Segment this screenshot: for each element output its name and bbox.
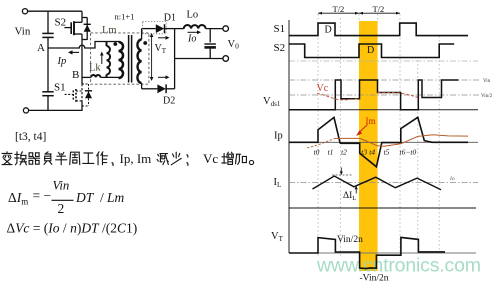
S1 switch leg [81, 77, 83, 84]
output inductor Lo [184, 25, 206, 29]
output terminal bottom [223, 56, 229, 62]
waveform Ip [289, 117, 468, 167]
secondary dot [143, 41, 147, 45]
T/2 span arrows [318, 12, 359, 14]
svg-text:Vin/2: Vin/2 [481, 94, 493, 99]
svg-text:S1: S1 [274, 23, 286, 35]
svg-text:S2: S2 [55, 17, 67, 29]
svg-text:Vin: Vin [483, 79, 491, 84]
wire top rail [28, 10, 82, 12]
Vin/2 level dashdot [289, 94, 481, 96]
yellow highlight band t3-t4 [359, 21, 378, 271]
wire Lo to output terminal [206, 28, 223, 30]
svg-text:t6−t0: t6−t0 [400, 148, 417, 157]
S1 body diode branch (dashed) [82, 83, 89, 85]
wire D1 cathode to node [165, 28, 175, 30]
svg-text:/: / [100, 190, 104, 205]
capacitor C1 (upper bridge cap) [42, 32, 53, 34]
wire node to Lo [175, 28, 184, 30]
wire D2 cathode to node [166, 88, 175, 90]
magnetizing current Im curve (orange) [307, 138, 335, 148]
node A wire with hop over switch leg [48, 42, 119, 49]
svg-text:Io: Io [187, 33, 196, 44]
diode D1 [156, 24, 164, 33]
svg-text:Vc: Vc [317, 83, 329, 94]
input terminal top-left [22, 9, 27, 14]
transformer primary winding [119, 42, 124, 78]
input terminal bottom-left [23, 108, 28, 113]
svg-text:S2: S2 [274, 42, 286, 54]
svg-text:Ip: Ip [274, 131, 283, 142]
svg-text:2: 2 [58, 201, 65, 216]
current arrow Ip [71, 51, 79, 53]
output terminal top [223, 26, 229, 32]
svg-text:D2: D2 [163, 96, 175, 107]
svg-text:Io: Io [449, 176, 455, 182]
mosfet S2 channel [73, 21, 75, 35]
ripple peak dashed line [332, 174, 352, 176]
svg-text:www.cntronics.com: www.cntronics.com [316, 255, 481, 277]
Vin level dashdot [289, 79, 481, 81]
svg-text:= −: = − [33, 188, 52, 203]
svg-text:-Vin/2n: -Vin/2n [360, 274, 389, 283]
svg-text:[t3, t4]: [t3, t4] [15, 131, 46, 143]
wire cap1 to node A [47, 37, 49, 91]
arrow to Im curve [359, 125, 368, 134]
magnetizing current arrow [101, 54, 103, 64]
S2 body diode [84, 23, 91, 25]
svg-text:Vin: Vin [53, 179, 70, 193]
capacitor C2 (lower bridge cap) [42, 91, 53, 93]
mosfet S2 drain lead [74, 21, 82, 23]
mosfet S1 source lead (dashed) [76, 100, 82, 102]
svg-text:t1: t1 [328, 148, 334, 157]
node vertical D1-D2 [174, 29, 176, 89]
mosfet S1 drain lead (dashed) [76, 90, 82, 92]
svg-text:T/2: T/2 [373, 4, 385, 14]
svg-text:n:1+1: n:1+1 [115, 12, 135, 22]
svg-text:Ip, Im: Ip, Im [120, 151, 152, 166]
Vds1 zero axis [289, 109, 478, 111]
waveform VT [289, 237, 445, 268]
waveform S1 [289, 23, 468, 35]
IL average dashdot [289, 182, 478, 184]
output capacitor [204, 43, 216, 45]
transformer secondary winding [137, 40, 141, 84]
svg-text:B: B [72, 69, 79, 81]
mosfet S1 channel (dashed) [75, 89, 77, 102]
svg-text:D: D [325, 24, 332, 35]
freewheel current arrow (bottom) [158, 76, 167, 78]
wire cap2 to bottom rail [47, 96, 49, 111]
dashed transformer box [91, 33, 149, 84]
wire bottom rail [29, 109, 83, 111]
waveform IL [313, 176, 442, 190]
svg-text:A: A [37, 42, 45, 54]
secondary current arrow (top) [158, 37, 167, 39]
VT zero axis [289, 252, 476, 254]
svg-text:Vc: Vc [203, 151, 218, 166]
primary dot [113, 42, 117, 46]
svg-text:t4: t4 [369, 148, 375, 157]
magnetizing inductor Lm [106, 42, 108, 47]
transformer core [128, 35, 130, 83]
svg-text:t3: t3 [361, 148, 367, 157]
svg-text:t5: t5 [384, 148, 390, 157]
svg-text:t0: t0 [314, 148, 320, 157]
diode D2 [157, 84, 165, 93]
IL bottom axis [289, 207, 476, 209]
wire node B [82, 76, 91, 78]
svg-text:Lo: Lo [187, 10, 199, 21]
waveform S2 [289, 44, 454, 58]
output bottom rail [175, 58, 223, 60]
S1 body diode [85, 90, 92, 92]
Ip zero axis [289, 141, 478, 143]
output current arrow Io [188, 31, 199, 33]
svg-text:D1: D1 [164, 13, 176, 24]
ripple down arrow [340, 168, 342, 173]
chinese text 变换器负半周工作， [2, 152, 12, 165]
svg-text:ΔVc = (Io / n)DT /(2C1): ΔVc = (Io / n)DT /(2C1) [7, 221, 138, 236]
svg-text:D: D [367, 45, 374, 56]
chinese text 减少； [157, 154, 168, 165]
vertical gridlines [317, 14, 319, 256]
svg-text:Vin/2n: Vin/2n [337, 235, 363, 245]
svg-text:Lm: Lm [106, 190, 125, 205]
leakage inductor Lk [91, 75, 100, 77]
secondary bottom lead [141, 83, 143, 89]
dotted outline around D1 [143, 22, 167, 34]
clamp voltage Vc curve (red dashed) [317, 93, 360, 100]
secondary top lead [141, 29, 143, 40]
svg-text:Vin: Vin [15, 26, 31, 38]
svg-text:DT: DT [75, 190, 95, 205]
diagram vertical axis [288, 20, 290, 253]
svg-text:Lm: Lm [102, 25, 117, 36]
mosfet S2 gate [64, 27, 71, 29]
waveform Vds1 [289, 80, 459, 110]
S2 body diode branch [82, 17, 87, 19]
output cap leg [209, 29, 211, 43]
wire left branch upper [47, 11, 49, 33]
svg-text:Ip: Ip [57, 56, 67, 67]
mosfet S2 source lead [74, 33, 82, 35]
ripple up arrow [355, 188, 357, 194]
mosfet S1 gate (dashed) [65, 93, 74, 95]
separator dashdot below S2 [289, 60, 478, 62]
svg-text:T/2: T/2 [333, 4, 345, 14]
svg-text:t2: t2 [341, 148, 347, 157]
chinese text 增加。 [222, 152, 233, 164]
VT measurement arrow [151, 35, 153, 57]
svg-text:V0: V0 [228, 39, 240, 51]
wire Lk to primary [100, 76, 118, 78]
svg-text:S1: S1 [54, 82, 66, 94]
